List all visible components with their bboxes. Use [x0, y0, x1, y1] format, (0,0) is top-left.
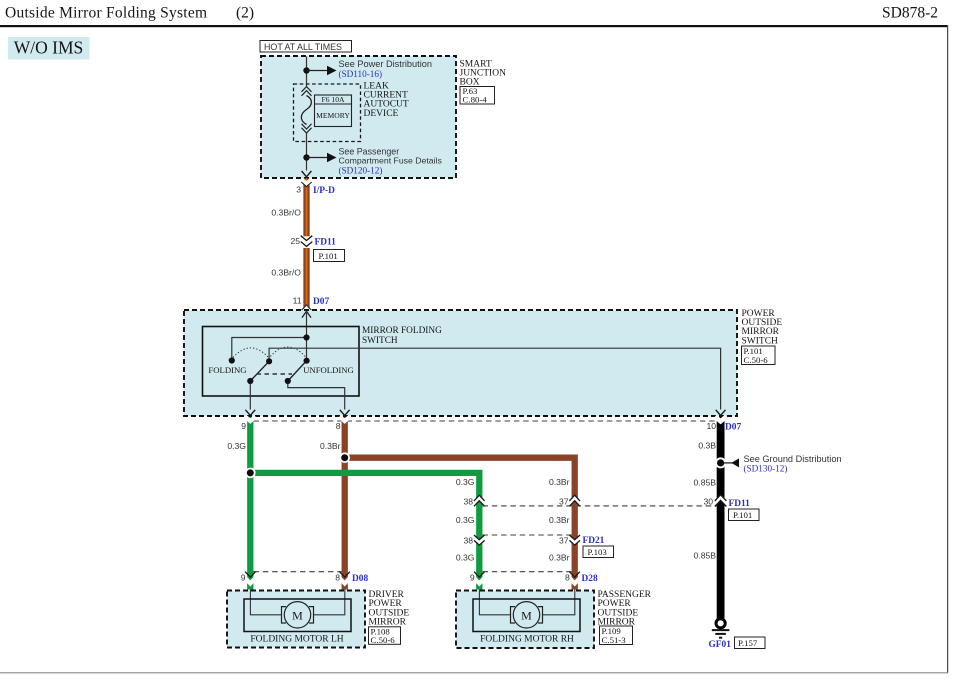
wire 0.3G branch to RH motor pin 9 — [250, 473, 479, 590]
entry arrow pin 11 — [302, 311, 311, 317]
svg-text:D28: D28 — [582, 574, 598, 584]
unfolding contact arm — [288, 361, 307, 381]
switch internal wiring — [232, 338, 307, 361]
in-line connector FD11 row: brown 37 — [569, 495, 580, 506]
node: folding pole — [266, 358, 272, 364]
svg-text:0.3Br: 0.3Br — [549, 552, 570, 562]
in-line connector FD21 row: brown 37 — [569, 535, 580, 545]
svg-text:P.157: P.157 — [738, 638, 758, 648]
pin 3 exit arrow — [302, 171, 312, 177]
SJB internal wire (top) — [306, 57, 308, 87]
svg-text:37: 37 — [559, 535, 569, 545]
motor LH leads — [250, 590, 281, 615]
motor RH leads — [479, 590, 510, 615]
svg-text:MEMORY: MEMORY — [316, 111, 350, 120]
svg-text:9: 9 — [241, 573, 246, 583]
pin 8 exit arrow — [340, 410, 350, 416]
junction node black (ground distribution) — [715, 457, 726, 468]
svg-text:37: 37 — [559, 497, 569, 507]
svg-text:9: 9 — [241, 421, 246, 431]
motor RH inner box — [473, 599, 580, 632]
motor RH brushes — [511, 607, 516, 623]
svg-text:(SD130-12): (SD130-12) — [744, 463, 788, 473]
svg-text:M: M — [521, 609, 532, 623]
svg-text:F6 10A: F6 10A — [322, 95, 346, 104]
arrow to See Power Distribution — [307, 70, 328, 72]
bottom page border — [0, 672, 948, 674]
svg-text:0.3G: 0.3G — [456, 552, 475, 562]
svg-text:9: 9 — [470, 573, 475, 583]
svg-text:FOLDING MOTOR LH: FOLDING MOTOR LH — [250, 634, 343, 644]
pin 8 drop — [288, 381, 345, 410]
svg-text:C.80-4: C.80-4 — [463, 95, 488, 105]
svg-text:0.85B: 0.85B — [694, 477, 717, 487]
svg-text:W/O IMS: W/O IMS — [14, 38, 84, 58]
svg-text:0.3Br: 0.3Br — [549, 515, 570, 525]
connector row FD11 (dashed) — [483, 505, 717, 507]
motor LH M symbol — [284, 602, 310, 628]
svg-text:8: 8 — [335, 573, 340, 583]
svg-text:P.103: P.103 — [588, 547, 608, 557]
motor LH brushes — [282, 607, 287, 623]
wire 0.3Br switch pin 8 to LH motor pin 8 — [342, 417, 348, 590]
folding motor LH (dashed box) — [227, 591, 365, 648]
svg-text:0.3Br/O: 0.3Br/O — [271, 207, 301, 217]
node: passenger fuse tap — [303, 154, 309, 160]
svg-text:25: 25 — [290, 236, 300, 246]
svg-text:0.3G: 0.3G — [227, 441, 246, 451]
pin 9 drop — [249, 381, 251, 410]
node: power distribution tap — [303, 67, 309, 73]
P.101 box — [314, 250, 345, 262]
svg-text:0.3B: 0.3B — [698, 441, 716, 451]
right page border — [947, 25, 949, 673]
svg-text:Compartment Fuse Details: Compartment Fuse Details — [339, 156, 443, 166]
wire 0.3Br branch to RH motor pin 8 — [345, 458, 575, 590]
ground GF01 — [716, 619, 725, 628]
svg-text:P.101: P.101 — [319, 251, 338, 261]
in-line connector FD21 row: green 38 — [474, 535, 485, 545]
connector row FD21 (dashed) — [483, 534, 572, 536]
power outside mirror switch (dashed box) — [184, 310, 737, 416]
svg-text:FD21: FD21 — [583, 536, 605, 546]
switch position arcs (dotted) — [233, 348, 268, 358]
female chevron at pin 11 — [302, 305, 311, 311]
svg-text:GF01: GF01 — [709, 640, 732, 650]
folding motor RH (dashed box) — [456, 591, 594, 649]
svg-text:UNFOLDING: UNFOLDING — [303, 365, 354, 375]
connector D07 pin 8 female chevron — [340, 417, 350, 422]
svg-text:See Ground Distribution: See Ground Distribution — [744, 454, 842, 464]
pin 10 exit arrow — [716, 410, 726, 416]
header rule — [0, 25, 948, 27]
svg-text:Outside Mirror Folding System: Outside Mirror Folding System — [5, 5, 207, 22]
svg-text:D08: D08 — [352, 574, 368, 584]
wire 0.3B/0.85B switch pin 10 to ground — [717, 417, 725, 620]
svg-text:See Power Distribution: See Power Distribution — [339, 59, 432, 69]
connector row D08 (dashed) — [254, 571, 342, 573]
leak current autocut device (dashed box) — [294, 84, 361, 142]
svg-text:0.85B: 0.85B — [694, 550, 717, 560]
svg-text:8: 8 — [565, 573, 570, 583]
svg-text:I/P-D: I/P-D — [313, 186, 335, 196]
svg-text:0.3G: 0.3G — [456, 515, 475, 525]
svg-text:C.51-3: C.51-3 — [602, 635, 627, 645]
svg-text:FD11: FD11 — [315, 237, 337, 247]
svg-text:FD11: FD11 — [729, 499, 751, 509]
arrow See Ground Distribution — [724, 462, 733, 464]
svg-text:38: 38 — [463, 497, 473, 507]
svg-text:10: 10 — [706, 421, 716, 431]
svg-text:38: 38 — [463, 535, 473, 545]
fuse break chevrons (top) — [302, 87, 312, 96]
svg-text:C.50-6: C.50-6 — [744, 355, 769, 365]
junction node green — [245, 468, 256, 479]
svg-text:0.3Br: 0.3Br — [320, 441, 341, 451]
svg-text:0.3Br/O: 0.3Br/O — [271, 267, 301, 277]
svg-text:D07: D07 — [725, 422, 741, 432]
in-line connector 25 FD11 — [301, 236, 313, 247]
folding contact arm — [250, 361, 269, 381]
svg-text:P.101: P.101 — [733, 510, 752, 520]
common output to pin 10 — [269, 348, 720, 409]
in-line connector FD11 row: green 38 — [474, 495, 485, 506]
wire 0.3G switch pin 9 to LH motor pin 9 — [247, 417, 253, 590]
svg-text:30: 30 — [703, 497, 713, 507]
svg-text:D07: D07 — [313, 297, 329, 307]
svg-text:SWITCH: SWITCH — [742, 336, 779, 346]
svg-text:0.3Br: 0.3Br — [549, 477, 570, 487]
mirror folding switch inner box — [203, 327, 360, 397]
wire 0.3Br/O from SJB pin 3 to switch pin 11 — [303, 178, 309, 236]
female chevron at pin 3 — [301, 179, 311, 184]
svg-text:MIRROR FOLDING: MIRROR FOLDING — [362, 326, 442, 336]
svg-text:0.3G: 0.3G — [456, 477, 475, 487]
svg-text:FOLDING: FOLDING — [208, 365, 246, 375]
pin 9 exit arrow — [245, 410, 255, 416]
mechanical link (dashed) — [257, 373, 293, 375]
fuse label box F6 10A / MEMORY — [315, 95, 352, 127]
smart junction box (dashed) — [261, 56, 456, 178]
node: switch common junction — [303, 334, 309, 340]
fuse break chevrons (bottom) — [302, 124, 312, 133]
svg-text:DEVICE: DEVICE — [364, 109, 399, 119]
connector D07 pin 10 female chevron — [715, 417, 726, 422]
motor RH M symbol — [513, 602, 539, 628]
motor LH inner box — [244, 599, 351, 632]
connector row D28 (dashed) — [483, 571, 572, 573]
SJB internal wire (bottom) — [306, 133, 308, 171]
node: unfolding fixed contact — [304, 358, 310, 364]
node: pin 9 contact — [247, 378, 253, 384]
svg-text:SWITCH: SWITCH — [362, 336, 398, 346]
arrow to See Passenger Compartment Fuse Details — [307, 157, 328, 159]
svg-text:(SD110-16): (SD110-16) — [339, 69, 383, 79]
svg-text:8: 8 — [336, 421, 341, 431]
connector row D07 (dashed) — [254, 420, 717, 422]
svg-text:C.50-6: C.50-6 — [371, 635, 396, 645]
svg-text:(2): (2) — [236, 5, 254, 22]
node: folding fixed contact — [229, 357, 235, 363]
W/O IMS label — [8, 37, 90, 60]
fuse element F6 10A (wavy) — [301, 96, 311, 125]
svg-text:FOLDING MOTOR RH: FOLDING MOTOR RH — [480, 634, 574, 644]
motor pin connectors (male chevron + female notch) — [245, 572, 255, 578]
in-line connector FD11 row: black 30 — [715, 495, 727, 507]
node: pin 8 contact — [285, 378, 291, 384]
HOT AT ALL TIMES box — [260, 41, 352, 53]
svg-text:3: 3 — [296, 184, 301, 194]
junction node brown — [339, 452, 350, 463]
svg-text:11: 11 — [293, 295, 302, 305]
connector D07 pin 9 female chevron — [245, 417, 255, 422]
svg-text:(SD120-12): (SD120-12) — [339, 165, 383, 175]
svg-text:SD878-2: SD878-2 — [882, 5, 938, 22]
svg-text:M: M — [292, 609, 303, 623]
svg-text:HOT AT ALL TIMES: HOT AT ALL TIMES — [264, 42, 342, 52]
